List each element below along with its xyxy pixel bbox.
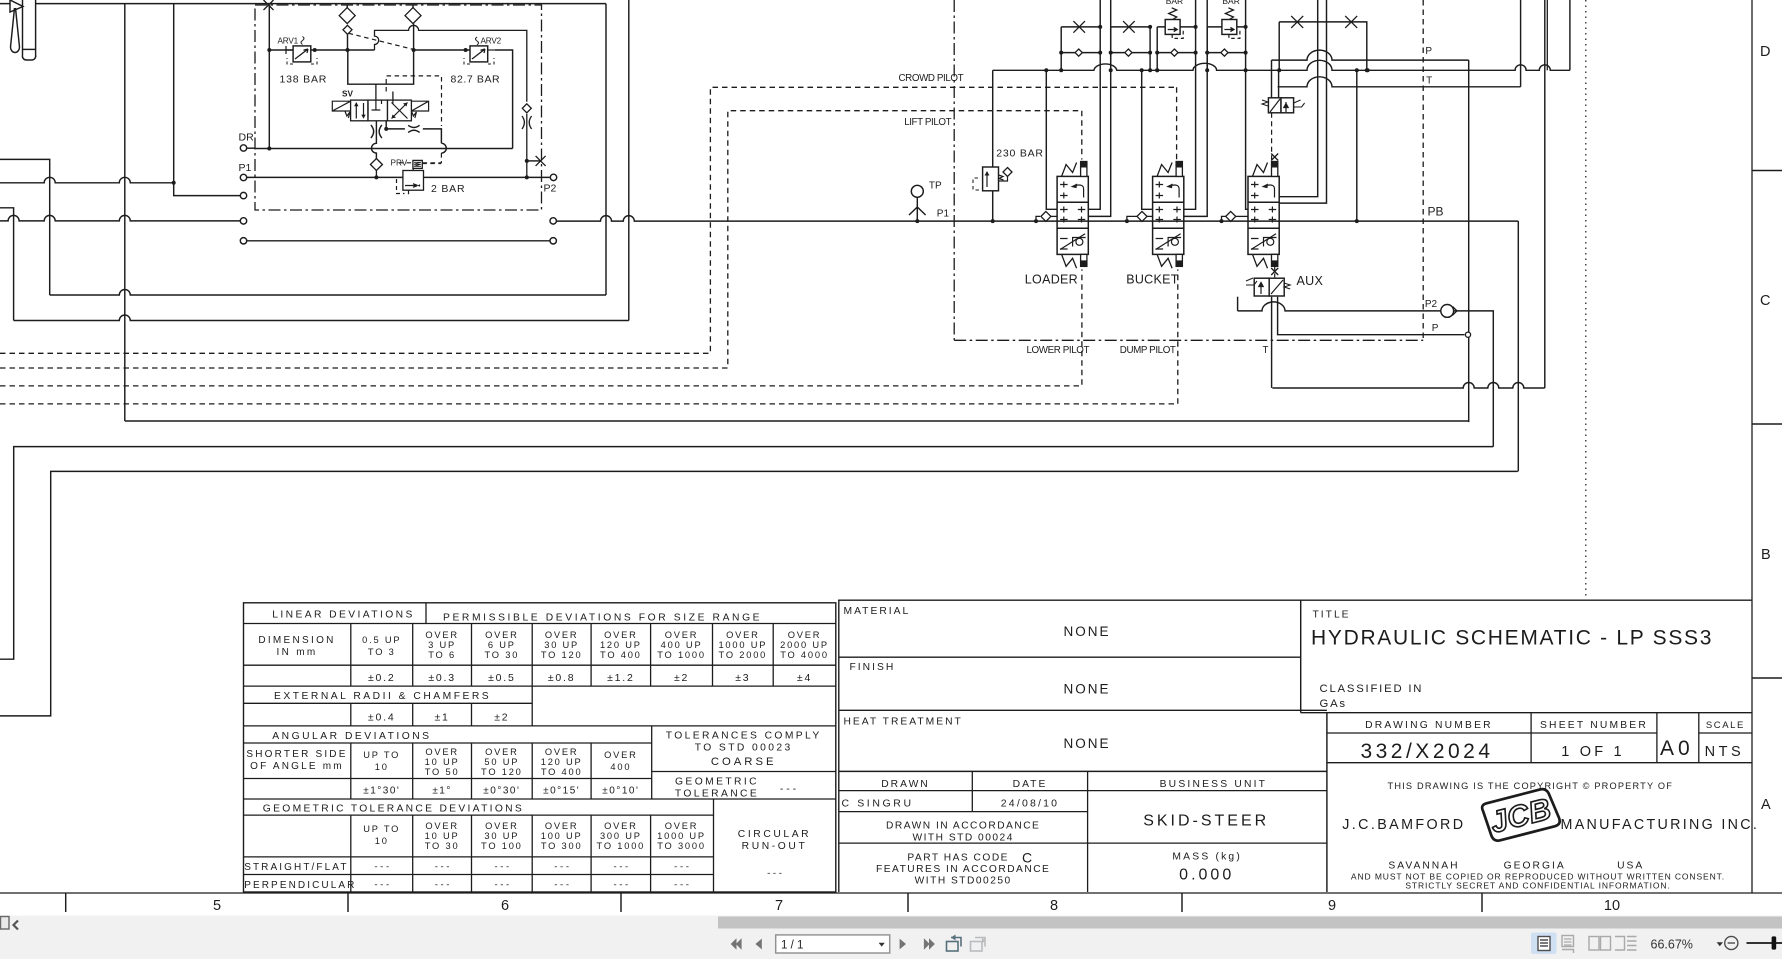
svg-text:TO 30: TO 30 <box>425 841 460 851</box>
wire vert x=1544.8 full <box>1544 0 1546 388</box>
svg-text:ARV2: ARV2 <box>481 37 502 46</box>
svg-text:10: 10 <box>1604 898 1620 914</box>
svg-text:TO 6: TO 6 <box>428 650 456 660</box>
feed check diamond LOADER <box>1034 219 1038 223</box>
svg-text:PERPENDICULAR: PERPENDICULAR <box>244 880 356 891</box>
svg-text:STRAIGHT/FLAT: STRAIGHT/FLAT <box>244 862 348 873</box>
wire vertical x=629 <box>628 0 630 321</box>
boundary dash-dot vertical x=954.2 <box>953 0 955 340</box>
svg-text:UP TO: UP TO <box>363 824 400 834</box>
BUCKET bottom pilot rod <box>1176 254 1182 266</box>
check ball P2 <box>1441 305 1454 318</box>
aux pilot solenoid valve bottom <box>1254 278 1269 296</box>
wire P1 inside box y=177.4 <box>247 176 550 178</box>
svg-text:DRAWN: DRAWN <box>881 779 930 790</box>
svg-text:A: A <box>1761 797 1771 813</box>
svg-text:MANUFACTURING INC.: MANUFACTURING INC. <box>1561 817 1760 833</box>
svg-text:THIS DRAWING IS THE COPYRIGHT: THIS DRAWING IS THE COPYRIGHT © PROPERTY… <box>1388 781 1674 791</box>
wire P1 gallery y=221.1 <box>556 216 1518 222</box>
svg-text:TO 1000: TO 1000 <box>657 650 706 660</box>
svg-text:- - -: - - - <box>780 783 797 795</box>
control valve LOADER body <box>1057 176 1088 254</box>
svg-text:B: B <box>1761 547 1771 563</box>
viewer scrollbar strip <box>0 916 1782 959</box>
wire L1 y=182.8 with humps <box>0 177 174 182</box>
pilot dashed bus lift y=368 <box>0 111 1082 368</box>
svg-text:EXTERNAL RADII & CHAMFERS: EXTERNAL RADII & CHAMFERS <box>274 691 491 702</box>
dashed vertical x=1423.2 <box>1422 0 1424 340</box>
wire solenoid drain down <box>1271 297 1273 388</box>
SV crossing arrows right cell <box>392 103 408 119</box>
aux pilot solenoid valve top <box>1268 98 1281 113</box>
svg-text:BUSINESS UNIT: BUSINESS UNIT <box>1160 779 1268 790</box>
svg-text:1000 UP: 1000 UP <box>657 831 706 841</box>
svg-text:10: 10 <box>375 836 389 846</box>
svg-text:±1°: ±1° <box>432 786 452 797</box>
svg-text:OVER: OVER <box>665 821 699 831</box>
svg-text:82.7 BAR: 82.7 BAR <box>451 73 501 85</box>
svg-text:GEOMETRIC: GEOMETRIC <box>675 777 759 788</box>
AUX bottom pilot rod <box>1272 254 1278 266</box>
JCB logo <box>1481 787 1561 843</box>
svg-text:TO STD 00023: TO STD 00023 <box>695 743 793 754</box>
svg-text:ARV1: ARV1 <box>278 37 299 46</box>
svg-text:A0: A0 <box>1660 737 1694 760</box>
wire jog to DR port circle <box>174 183 241 196</box>
svg-text:TO 1000: TO 1000 <box>597 841 646 851</box>
svg-text:300 UP: 300 UP <box>600 831 642 841</box>
svg-text:DRAWN IN ACCORDANCE: DRAWN IN ACCORDANCE <box>886 821 1040 832</box>
wire vertical x=606.5 <box>605 4 607 295</box>
svg-text:- - -: - - - <box>554 880 569 891</box>
svg-text:LOADER: LOADER <box>1025 273 1078 287</box>
svg-text:OVER: OVER <box>604 821 638 831</box>
svg-text:WITH STD00250: WITH STD00250 <box>915 876 1012 887</box>
control valve AUX body <box>1248 176 1279 254</box>
svg-text:CLASSIFIED IN: CLASSIFIED IN <box>1320 683 1424 695</box>
svg-text:±0.2: ±0.2 <box>368 672 396 684</box>
boundary dash-dot horizontal y=340.3 <box>954 339 1423 341</box>
relief valve ARV1 <box>293 46 311 62</box>
relief group G3 (bucket A) with relief valve <box>1157 26 1195 28</box>
svg-text:WITH STD 00024: WITH STD 00024 <box>912 832 1013 843</box>
sidebar toggle button <box>1 917 10 930</box>
svg-text:PERMISSIBLE DEVIATIONS FOR SIZ: PERMISSIBLE DEVIATIONS FOR SIZE RANGE <box>443 613 762 624</box>
dims header row <box>350 624 352 687</box>
svg-text:DIMENSION: DIMENSION <box>258 635 335 646</box>
svg-text:±0.4: ±0.4 <box>368 712 396 724</box>
test point TP <box>911 185 923 197</box>
svg-text:OVER: OVER <box>665 630 699 640</box>
zone ticks bottom <box>65 893 67 912</box>
svg-text:±0°10': ±0°10' <box>602 786 639 797</box>
port circle (243.5,221) <box>240 218 246 224</box>
svg-text:10: 10 <box>375 762 389 772</box>
LOADER bottom pilot spring <box>1062 254 1077 268</box>
pilot solenoid feed T <box>1278 70 1280 98</box>
svg-text:2 BAR: 2 BAR <box>431 183 465 195</box>
wire y=421 long <box>125 420 1469 422</box>
svg-text:OVER: OVER <box>485 630 519 640</box>
svg-text:OVER: OVER <box>788 630 822 640</box>
svg-text:SHEET NUMBER: SHEET NUMBER <box>1540 720 1648 731</box>
AUX top pilot rod <box>1272 162 1278 177</box>
wire vert x=1520.6 top <box>1520 0 1522 87</box>
svg-text:332/X2024: 332/X2024 <box>1360 740 1493 763</box>
BUCKET top pilot spring <box>1157 163 1172 177</box>
svg-text:- - -: - - - <box>767 868 782 879</box>
svg-text:TO 120: TO 120 <box>481 767 523 777</box>
wire ARV2 out to right vertical x=512.6 <box>495 50 513 149</box>
svg-text:NONE: NONE <box>1063 682 1110 697</box>
svg-text:OVER: OVER <box>545 630 579 640</box>
LOADER bottom pilot rod <box>1081 254 1087 266</box>
svg-text:2000 UP: 2000 UP <box>780 640 829 650</box>
T gallery bus y=70.4 <box>993 60 1570 70</box>
aux dashed rod links <box>1274 266 1276 278</box>
sheet border right column <box>1751 0 1753 893</box>
svg-text:1000 UP: 1000 UP <box>718 640 767 650</box>
svg-text:100 UP: 100 UP <box>541 831 583 841</box>
svg-text:TOLERANCES COMPLY: TOLERANCES COMPLY <box>666 731 822 742</box>
svg-text:ANGULAR DEVIATIONS: ANGULAR DEVIATIONS <box>272 731 431 742</box>
svg-text:- - -: - - - <box>435 862 450 873</box>
svg-text:PB: PB <box>1428 205 1444 219</box>
svg-text:DATE: DATE <box>1013 779 1048 790</box>
AUX bottom pilot spring <box>1253 254 1268 268</box>
svg-text:- - -: - - - <box>674 880 689 891</box>
svg-text:TO 2000: TO 2000 <box>719 650 768 660</box>
work port risers BUCKET <box>1142 70 1153 209</box>
title block outline <box>839 600 1752 892</box>
port circle DR (243.5,147.5) <box>240 145 246 151</box>
wire SV drain down with hop over DR bus <box>372 138 377 159</box>
svg-text:±0°15': ±0°15' <box>543 786 580 797</box>
svg-text:AUX: AUX <box>1297 274 1324 288</box>
svg-text:5: 5 <box>213 898 221 914</box>
svg-text:TO 120: TO 120 <box>541 650 583 660</box>
wire PB corner down x=1518.3 <box>1517 221 1519 471</box>
SV centre cell T port <box>372 100 393 110</box>
svg-text:±1.2: ±1.2 <box>607 672 635 684</box>
pilot dashed bus lower y=385.9 <box>0 269 1082 386</box>
svg-text:120 UP: 120 UP <box>541 757 583 767</box>
svg-text:TO 300: TO 300 <box>541 841 583 851</box>
pilot hop over DR bus (right) <box>441 143 446 153</box>
svg-text:PRV: PRV <box>391 159 408 168</box>
svg-text:9: 9 <box>1328 898 1336 914</box>
svg-text:TO 100: TO 100 <box>481 841 523 851</box>
wire solenoid drain to P2 <box>1237 297 1239 311</box>
wire y=207.8 + vertical x=13.6 <box>0 208 14 321</box>
svg-text:120 UP: 120 UP <box>600 640 642 650</box>
svg-text:±1°30': ±1°30' <box>363 786 400 797</box>
wire branch y=30.4 to right orifice line <box>375 25 527 101</box>
svg-text:STRICTLY SECRET AND CONFIDENTI: STRICTLY SECRET AND CONFIDENTIAL INFORMA… <box>1405 880 1670 890</box>
svg-text:T: T <box>1426 76 1432 87</box>
svg-text:1 OF 1: 1 OF 1 <box>1561 744 1625 760</box>
orifice below SV left <box>371 125 382 138</box>
svg-text:- - -: - - - <box>374 880 389 891</box>
wire T corner up x=1569.9 <box>1569 0 1571 70</box>
wire y=295 <box>50 290 606 296</box>
wire L2 y=220.9 with humps <box>0 215 240 221</box>
wire top bus y=3.6 <box>36 3 606 5</box>
pilot dashed drop to bucket top cap <box>1176 87 1178 159</box>
svg-text:IN mm: IN mm <box>277 647 318 658</box>
svg-text:TO 3: TO 3 <box>368 647 396 657</box>
feed check diamond AUX <box>1220 219 1224 223</box>
svg-text:DRAWING NUMBER: DRAWING NUMBER <box>1365 720 1493 731</box>
wire DR bus y=148.5 inside box <box>255 148 513 150</box>
svg-text:MATERIAL: MATERIAL <box>844 606 911 617</box>
P feed line y=60.1 <box>1272 50 1469 60</box>
AUX top pilot spring <box>1253 163 1268 177</box>
PRV pilot spring box <box>413 160 422 168</box>
pilot dashed bus crowd y=353.3 <box>0 87 1177 353</box>
aux pilot dashed to valve <box>1271 113 1273 160</box>
svg-text:OF ANGLE mm: OF ANGLE mm <box>250 761 344 772</box>
external radii section <box>244 702 533 704</box>
svg-text:TO 50: TO 50 <box>425 767 460 777</box>
svg-text:PART HAS CODE: PART HAS CODE <box>907 853 1009 864</box>
svg-text:7: 7 <box>775 898 783 914</box>
wire y=446.6 long <box>0 447 1493 660</box>
svg-text:SCALE: SCALE <box>1706 720 1745 731</box>
relief group G2 (loader B) <box>1111 26 1150 28</box>
control valve BUCKET body <box>1153 176 1184 254</box>
svg-text:0.000: 0.000 <box>1179 867 1234 884</box>
pump teardrop <box>11 8 20 53</box>
svg-text:10 UP: 10 UP <box>425 757 460 767</box>
svg-text:±1: ±1 <box>434 712 449 724</box>
pilot branch through horizontal orifice <box>386 121 441 144</box>
svg-text:USA: USA <box>1617 861 1644 872</box>
svg-text:±4: ±4 <box>797 672 812 684</box>
svg-text:- - -: - - - <box>374 862 389 873</box>
svg-text:OVER: OVER <box>485 821 519 831</box>
work port risers LOADER <box>1046 70 1057 209</box>
svg-text:LIFT PILOT: LIFT PILOT <box>904 117 951 128</box>
drawing number row <box>1301 712 1752 714</box>
wire box-A left vertical x=269.3 <box>268 5 270 149</box>
relief group G1 (loader A) <box>1061 26 1100 28</box>
svg-text:66.67%: 66.67% <box>1651 938 1693 952</box>
X plug on box top edge <box>264 0 274 10</box>
svg-text:3 UP: 3 UP <box>428 640 456 650</box>
wire P return y=334.7 <box>1278 297 1465 335</box>
svg-text:NONE: NONE <box>1063 624 1110 639</box>
wire y=388 drain line <box>1272 383 1544 389</box>
svg-text:OVER: OVER <box>545 821 579 831</box>
aux bypass line y=86.8 <box>1278 77 1521 87</box>
geometric tolerance deviations section <box>244 798 836 800</box>
svg-text:50 UP: 50 UP <box>484 757 519 767</box>
check valve diamond above P1 <box>370 159 382 171</box>
aux plug loop with X X <box>1279 22 1367 71</box>
svg-text:SAVANNAH: SAVANNAH <box>1388 861 1459 872</box>
wire vertical x=173.7 <box>173 4 175 183</box>
SV right solenoid box <box>411 101 428 118</box>
wire vert x=1356.8 T drop <box>1356 70 1358 221</box>
wire vert x=992.7 (230bar riser) <box>992 70 994 167</box>
svg-text:OVER: OVER <box>545 747 579 757</box>
pilot dashed diagonal <box>349 33 413 49</box>
port circle (243.5,195.6) <box>240 192 246 198</box>
svg-text:BAR: BAR <box>1222 0 1239 6</box>
svg-text:- - -: - - - <box>494 862 509 873</box>
angular deviations section <box>244 742 652 744</box>
svg-text:TO 400: TO 400 <box>600 650 642 660</box>
svg-text:D: D <box>1760 44 1770 60</box>
svg-text:MASS (kg): MASS (kg) <box>1172 852 1242 863</box>
svg-text:1 / 1: 1 / 1 <box>781 940 803 952</box>
X on aux top rod <box>1271 154 1278 161</box>
BUCKET bottom pilot spring <box>1157 254 1172 268</box>
port circle P1 main right (553.2,221) <box>550 218 556 224</box>
LOADER top pilot rod <box>1081 162 1087 177</box>
wire y=471.4 long <box>0 471 1518 716</box>
SV arrows left cell <box>356 103 368 119</box>
svg-text:P1: P1 <box>937 208 950 219</box>
svg-text:P2: P2 <box>1425 299 1438 310</box>
port circle P2 (552.8,177.4) <box>550 174 556 180</box>
svg-text:TO 400: TO 400 <box>541 767 583 777</box>
svg-text:FEATURES IN ACCORDANCE: FEATURES IN ACCORDANCE <box>876 864 1050 875</box>
pilot solenoid feed P <box>1271 60 1273 98</box>
svg-text:- - -: - - - <box>554 862 569 873</box>
wire y=320.5 <box>14 315 629 321</box>
pump cylinder <box>22 0 35 60</box>
check valve diamond D2 <box>412 5 414 8</box>
svg-text:±0.3: ±0.3 <box>428 672 456 684</box>
finish box <box>839 709 1327 711</box>
svg-text:6 UP: 6 UP <box>488 640 516 650</box>
svg-text:BUCKET: BUCKET <box>1126 273 1179 287</box>
svg-text:CIRCULAR: CIRCULAR <box>738 829 811 840</box>
X on aux bottom rod <box>1271 268 1278 275</box>
svg-text:GEORGIA: GEORGIA <box>1504 861 1566 872</box>
svg-text:HEAT TREATMENT: HEAT TREATMENT <box>844 716 963 727</box>
svg-text:TO 30: TO 30 <box>485 650 520 660</box>
svg-text:400: 400 <box>610 762 631 772</box>
wire ARV line y=50 (left segment) <box>269 49 374 51</box>
svg-text:NONE: NONE <box>1063 736 1110 751</box>
svg-text:DUMP PILOT: DUMP PILOT <box>1120 345 1176 356</box>
svg-text:±2: ±2 <box>674 672 689 684</box>
svg-text:UP TO: UP TO <box>363 750 400 760</box>
orifice on right line <box>522 116 532 129</box>
SV left solenoid box <box>332 101 350 118</box>
X plug stub on right line <box>527 160 541 162</box>
svg-text:±0°30': ±0°30' <box>483 786 520 797</box>
svg-text:OVER: OVER <box>425 821 459 831</box>
check diamond on right line <box>522 104 531 113</box>
svg-text:OVER: OVER <box>485 747 519 757</box>
wire y=159.4 + vertical x=49.7 <box>0 159 50 295</box>
relief group G2 right leg <box>1149 27 1151 70</box>
feed check diamond BUCKET <box>1125 219 1129 223</box>
svg-text:P: P <box>1432 323 1439 334</box>
pump fragment arrow <box>0 0 23 12</box>
svg-text:138 BAR: 138 BAR <box>280 73 328 85</box>
svg-text:±2: ±2 <box>494 712 509 724</box>
check valve small diamond <box>343 25 352 34</box>
svg-text:P1: P1 <box>239 162 252 174</box>
svg-text:- - -: - - - <box>613 862 628 873</box>
svg-text:COARSE: COARSE <box>711 756 777 768</box>
svg-text:- - -: - - - <box>674 862 689 873</box>
svg-text:TITLE: TITLE <box>1313 610 1351 621</box>
check valve diamond D1 <box>346 5 348 8</box>
svg-text:HYDRAULIC SCHEMATIC - LP SSS3: HYDRAULIC SCHEMATIC - LP SSS3 <box>1311 627 1713 650</box>
svg-text:OVER: OVER <box>604 630 638 640</box>
svg-text:OVER: OVER <box>604 750 638 760</box>
pilot dashed bus dump y=403.9 <box>0 269 1178 404</box>
svg-text:8: 8 <box>1050 898 1058 914</box>
wire P corner down x=1468.7 <box>1468 60 1470 422</box>
svg-text:GEOMETRIC TOLERANCE DEVIATIONS: GEOMETRIC TOLERANCE DEVIATIONS <box>263 803 524 814</box>
svg-text:T: T <box>1263 345 1269 356</box>
valve block box A dash-dot outline <box>255 5 542 210</box>
svg-text:10 UP: 10 UP <box>425 831 460 841</box>
svg-text:- - -: - - - <box>494 880 509 891</box>
table title row <box>244 623 836 625</box>
wire SV feed risers <box>376 84 393 100</box>
wire U-loop under ARV bus <box>348 50 414 84</box>
wire ARV line y=50 (right segment) <box>414 49 470 51</box>
svg-text:C: C <box>1760 293 1770 309</box>
svg-text:±0.5: ±0.5 <box>488 672 516 684</box>
sheet border bottom line <box>0 892 1782 894</box>
svg-text:DR: DR <box>239 132 255 144</box>
svg-text:6: 6 <box>501 898 509 914</box>
svg-text:30 UP: 30 UP <box>484 831 519 841</box>
wire L3 y=240.8 circle to circle <box>240 238 246 244</box>
svg-text:±0.8: ±0.8 <box>548 672 576 684</box>
svg-text:NTS: NTS <box>1705 744 1745 760</box>
svg-text:0.5 UP: 0.5 UP <box>362 635 401 645</box>
wire vertical x=124.8 <box>124 4 126 421</box>
drawn/date/business row <box>839 790 1327 792</box>
svg-text:TP: TP <box>929 181 942 192</box>
svg-text:- - -: - - - <box>435 880 450 891</box>
heat treatment box <box>839 770 1327 772</box>
svg-text:RUN-OUT: RUN-OUT <box>742 841 808 852</box>
svg-text:FINISH: FINISH <box>850 662 896 673</box>
svg-text:LOWER PILOT: LOWER PILOT <box>1027 345 1090 356</box>
svg-text:OVER: OVER <box>425 630 459 640</box>
svg-text:OVER: OVER <box>425 747 459 757</box>
relief valve ARV2 <box>470 46 488 62</box>
svg-text:GAs: GAs <box>1320 698 1347 710</box>
svg-text:TO 4000: TO 4000 <box>780 650 829 660</box>
pilot dashed drop to loader top cap <box>1081 111 1083 160</box>
svg-text:J.C.BAMFORD: J.C.BAMFORD <box>1342 817 1465 833</box>
view mode buttons <box>1531 933 1557 955</box>
svg-text:30 UP: 30 UP <box>544 640 579 650</box>
port circle P1 (243.5,177.5) <box>240 174 246 180</box>
material box <box>839 656 1301 658</box>
BUCKET top pilot rod <box>1176 162 1182 177</box>
work port risers AUX <box>1246 0 1248 209</box>
svg-text:TO 3000: TO 3000 <box>657 841 706 851</box>
svg-text:- - -: - - - <box>613 880 628 891</box>
svg-text:SHORTER SIDE: SHORTER SIDE <box>246 749 347 760</box>
LOADER top pilot spring <box>1062 163 1077 177</box>
svg-text:OVER: OVER <box>726 630 760 640</box>
svg-text:TOLERANCE: TOLERANCE <box>675 789 759 800</box>
